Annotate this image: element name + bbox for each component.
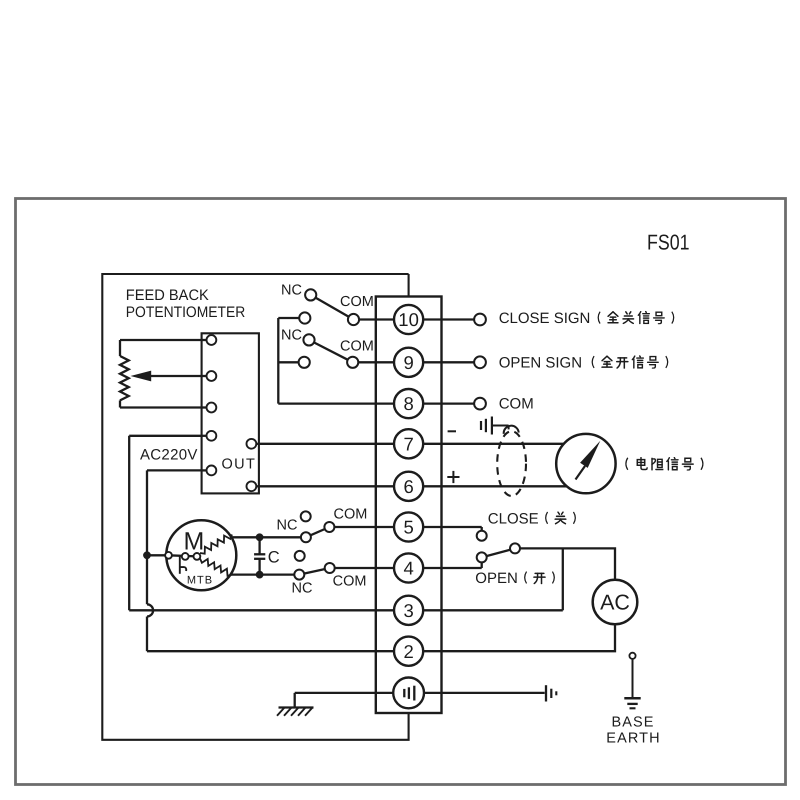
svg-text:COM: COM <box>333 574 367 590</box>
svg-text:AC220V: AC220V <box>140 447 198 464</box>
svg-text:OUT: OUT <box>222 456 257 472</box>
svg-text:4: 4 <box>403 558 413 579</box>
svg-text:CLOSE SIGN: CLOSE SIGN <box>499 310 591 327</box>
svg-text:8: 8 <box>403 393 413 414</box>
svg-text:6: 6 <box>403 476 413 497</box>
svg-text:NC: NC <box>292 581 313 597</box>
svg-text:FEED BACK: FEED BACK <box>126 287 209 304</box>
svg-text:COM: COM <box>340 294 374 310</box>
svg-text:7: 7 <box>403 433 413 454</box>
svg-text:POTENTIOMETER: POTENTIOMETER <box>126 304 246 321</box>
svg-text:NC: NC <box>281 283 302 299</box>
svg-text:CLOSE: CLOSE <box>488 510 539 527</box>
svg-text:9: 9 <box>403 352 413 373</box>
svg-text:NC: NC <box>281 328 302 344</box>
svg-text:C: C <box>268 548 280 566</box>
svg-text:2: 2 <box>403 641 413 662</box>
svg-text:5: 5 <box>403 517 413 538</box>
svg-text:NC: NC <box>277 518 298 534</box>
svg-text:MTB: MTB <box>187 575 213 587</box>
svg-text:EARTH: EARTH <box>606 730 660 746</box>
svg-text:M: M <box>183 528 204 556</box>
svg-text:3: 3 <box>403 600 413 621</box>
svg-text:COM: COM <box>340 339 374 355</box>
svg-text:10: 10 <box>398 309 419 330</box>
svg-text:AC: AC <box>600 591 630 615</box>
svg-text:OPEN SIGN: OPEN SIGN <box>499 354 582 371</box>
svg-text:COM: COM <box>334 507 368 523</box>
svg-text:OPEN: OPEN <box>475 570 518 587</box>
svg-text:FS01: FS01 <box>647 231 690 255</box>
svg-text:COM: COM <box>499 396 534 413</box>
svg-text:BASE: BASE <box>611 714 654 730</box>
